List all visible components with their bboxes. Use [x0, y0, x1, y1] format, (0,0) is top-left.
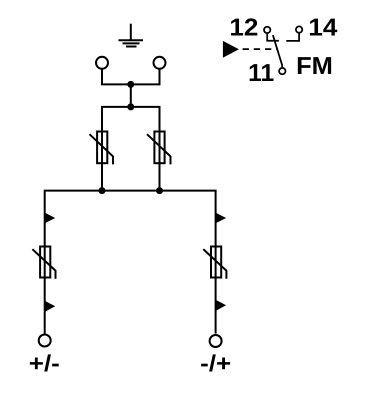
wire from top-left terminal: [101, 69, 103, 84]
junction node bus-right: [156, 187, 163, 194]
terminal circle bottom-right: [210, 335, 222, 347]
varistor lower-right: [203, 247, 226, 279]
relay contact 14 pin: [286, 26, 302, 41]
varistor upper-left: [90, 132, 114, 165]
arrester electrode right-lower: [216, 300, 227, 311]
relay contact 12 pin: [264, 27, 279, 41]
varistor lower-left: [32, 247, 55, 279]
wire right varistor column: [159, 107, 161, 191]
wire joining terminals: [101, 83, 161, 85]
svg-text:12: 12: [229, 15, 258, 42]
wire from top-right terminal: [159, 69, 161, 84]
svg-text:-/+: -/+: [200, 350, 231, 376]
varistor upper-right: [147, 132, 171, 165]
bus wire: [45, 191, 216, 334]
junction node bus-left: [99, 187, 106, 194]
svg-text:11: 11: [248, 60, 274, 87]
wire center vertical: [130, 84, 132, 107]
terminal circle top-right: [154, 57, 166, 69]
wire left varistor column: [101, 107, 103, 191]
junction node lower: [127, 103, 134, 110]
ground: [119, 24, 144, 47]
relay switch arm: [273, 35, 282, 68]
terminal circle top-left: [96, 57, 108, 69]
arrester electrode left-upper: [45, 213, 56, 224]
svg-text:14: 14: [308, 15, 337, 42]
terminal circle bottom-left: [39, 335, 51, 347]
FM actuator triangle: [223, 41, 239, 58]
junction node upper: [127, 81, 134, 88]
svg-text:FM: FM: [296, 53, 333, 80]
mechanical link dashed wire: [243, 48, 278, 50]
arrester electrode left-lower: [45, 301, 56, 312]
relay contact 11 pin: [279, 68, 285, 74]
wire splitting to varistors: [101, 106, 161, 108]
svg-text:+/-: +/-: [29, 350, 60, 376]
arrester electrode right-upper: [216, 213, 227, 224]
